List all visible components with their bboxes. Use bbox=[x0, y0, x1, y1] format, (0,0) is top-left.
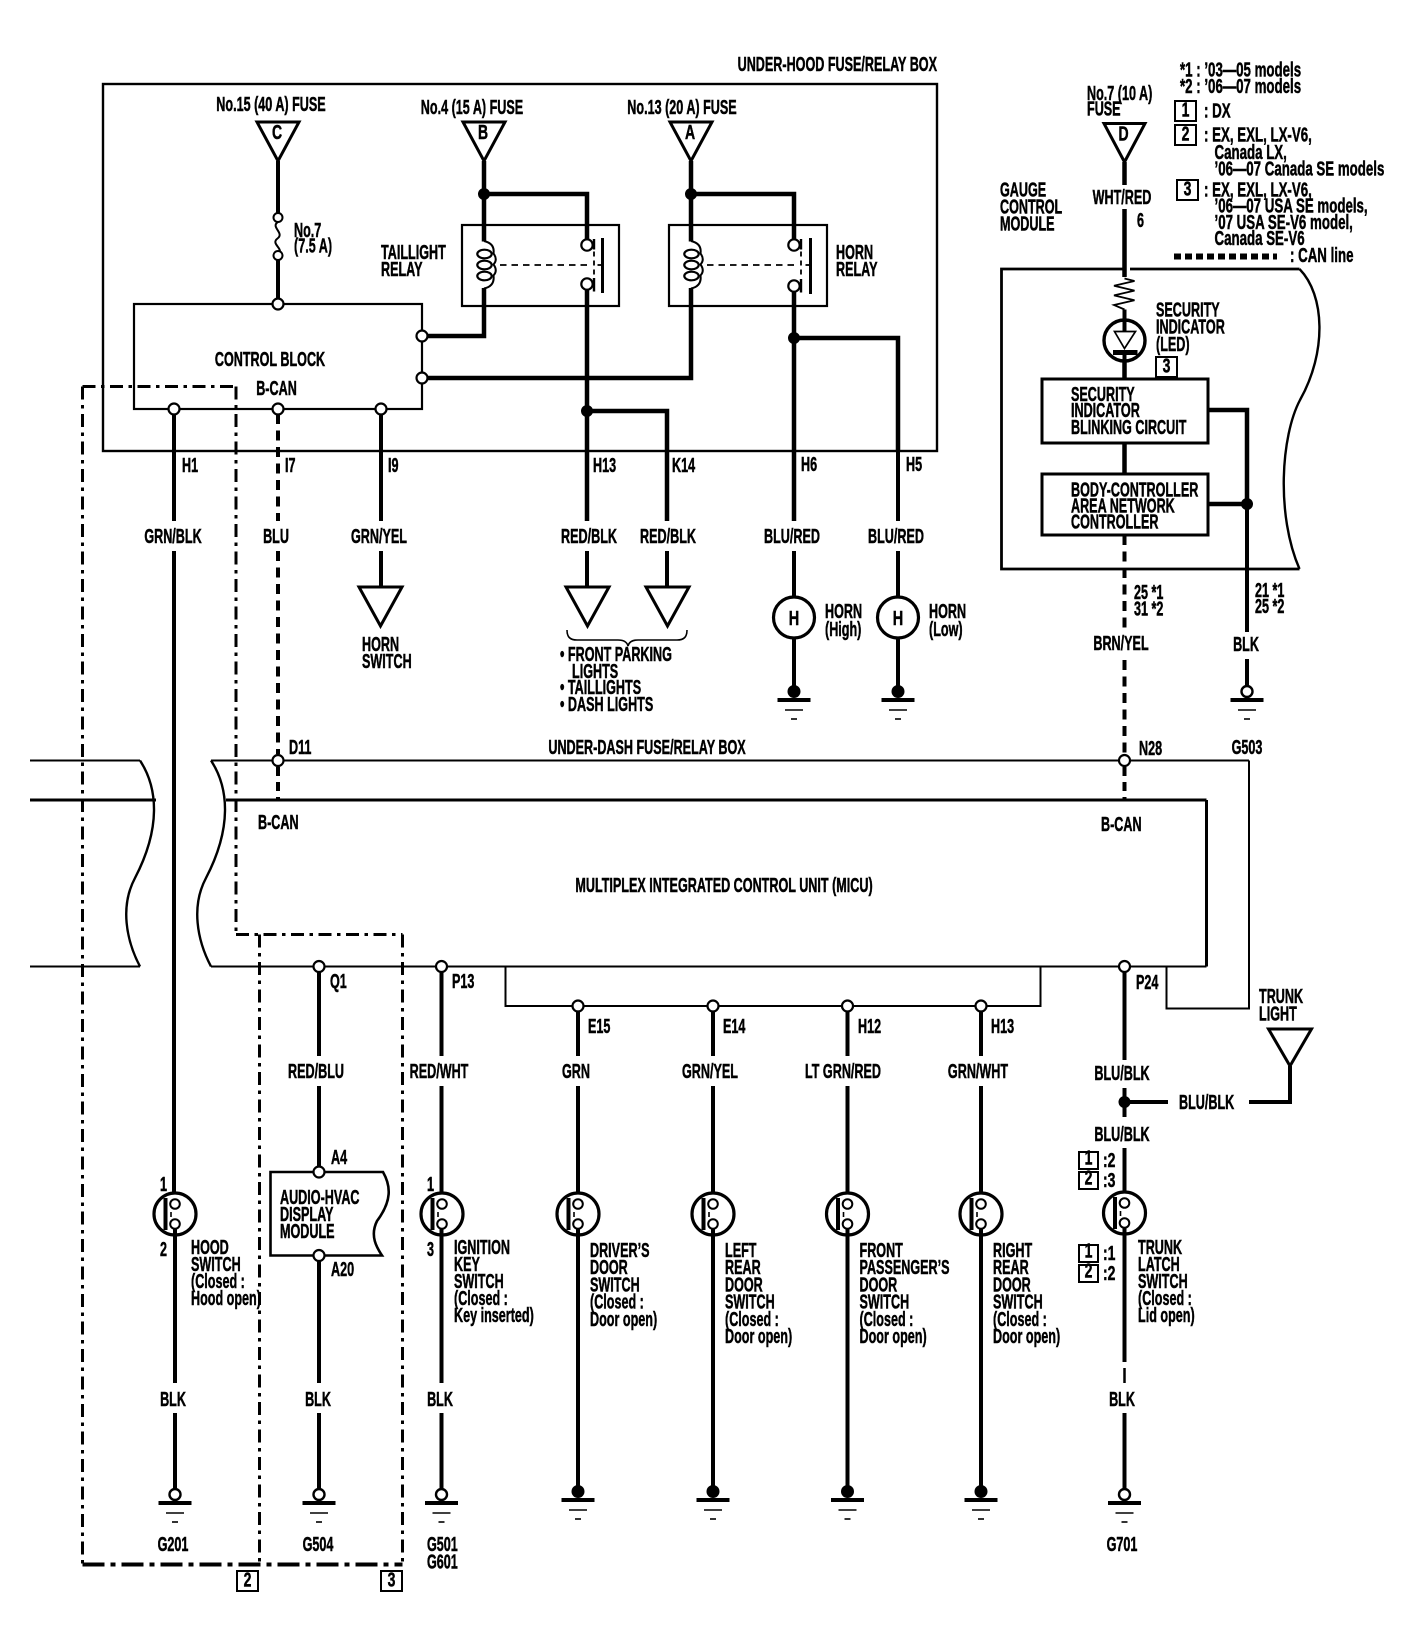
wire trunk to ground bbox=[1123, 1413, 1127, 1489]
svg-text:Lid open): Lid open) bbox=[1138, 1304, 1195, 1327]
wire H1 upper bbox=[172, 414, 176, 521]
ground horn low bbox=[892, 686, 904, 698]
node control block right upper bbox=[417, 331, 428, 342]
wire ignition to ground bbox=[440, 1413, 444, 1489]
wire front passenger door to ground bbox=[846, 1228, 850, 1486]
svg-text:Door open): Door open) bbox=[860, 1325, 927, 1348]
svg-text:H12: H12 bbox=[858, 1015, 881, 1038]
node P24 bbox=[1119, 961, 1130, 972]
svg-text:BLU/BLK: BLU/BLK bbox=[1179, 1091, 1234, 1114]
boxed 1 :2 bbox=[1079, 1152, 1098, 1169]
ground front passenger door bbox=[842, 1486, 854, 1498]
junction fuse A bbox=[686, 189, 697, 200]
wire taillight contact down bbox=[585, 289, 590, 521]
ground right rear door bbox=[975, 1486, 987, 1498]
svg-text:• DASH LIGHTS: • DASH LIGHTS bbox=[560, 693, 653, 716]
boxed 3 LED bbox=[1156, 357, 1177, 377]
wire I7 dashed BLU upper bbox=[276, 414, 280, 521]
horn relay contact bbox=[788, 239, 799, 250]
svg-text:N28: N28 bbox=[1139, 737, 1162, 760]
svg-text:GRN/BLK: GRN/BLK bbox=[144, 525, 201, 548]
svg-text:H5: H5 bbox=[906, 453, 922, 476]
wire to K14 bbox=[587, 411, 667, 521]
wire A junction to coil bbox=[689, 194, 694, 242]
wire LED to blinking circuit bbox=[1122, 360, 1127, 380]
svg-text:’06—07 Canada SE models: ’06—07 Canada SE models bbox=[1215, 158, 1385, 180]
trunk latch switch bbox=[1104, 1192, 1146, 1234]
svg-text:CONTROL BLOCK: CONTROL BLOCK bbox=[215, 348, 325, 371]
wire N28 to MICU dashed bbox=[1123, 767, 1127, 799]
svg-text:RED/BLK: RED/BLK bbox=[561, 525, 617, 548]
dash-dot boundary bottom horizontal bbox=[83, 1563, 403, 1567]
node N28 bbox=[1119, 755, 1130, 766]
wire H5 lower bbox=[896, 551, 900, 597]
svg-text:LIGHT: LIGHT bbox=[1259, 1003, 1297, 1026]
right rear door switch bbox=[960, 1193, 1002, 1235]
wire fuse D down 2 bbox=[1122, 209, 1127, 277]
taillight relay coil bbox=[477, 250, 491, 259]
svg-text:SWITCH: SWITCH bbox=[362, 650, 412, 673]
svg-text:I9: I9 bbox=[388, 454, 399, 477]
wire front passenger door lower bbox=[846, 1086, 850, 1200]
wire taillight coil to control block bbox=[428, 288, 484, 336]
wire BRN/YEL dashed upper bbox=[1123, 535, 1127, 632]
svg-text:Door open): Door open) bbox=[725, 1325, 792, 1348]
wire P13 lower bbox=[440, 1086, 444, 1200]
svg-text:(LED): (LED) bbox=[1156, 333, 1190, 356]
MICU connector bracket bbox=[506, 967, 1041, 1007]
svg-text:BLK: BLK bbox=[305, 1388, 331, 1411]
wire front passenger door upper bbox=[846, 1012, 850, 1056]
svg-text:3: 3 bbox=[388, 1568, 396, 1591]
svg-text:2: 2 bbox=[244, 1568, 252, 1591]
svg-text:I7: I7 bbox=[285, 454, 296, 477]
under-hood fuse/relay box bbox=[103, 84, 937, 451]
dash-dot boundary mid horizontal bbox=[236, 933, 403, 936]
horn switch triangle bbox=[359, 587, 402, 626]
taillight relay bbox=[462, 225, 619, 306]
svg-text:No.4 (15 A) FUSE: No.4 (15 A) FUSE bbox=[421, 96, 523, 119]
svg-text:Key inserted): Key inserted) bbox=[454, 1304, 534, 1327]
wire P13 upper bbox=[440, 972, 444, 1056]
wire blinking circuit to CAN bus bbox=[1208, 410, 1247, 504]
svg-text:(7.5 A): (7.5 A) bbox=[294, 235, 332, 258]
node E15 bbox=[573, 1001, 584, 1012]
svg-text:G503: G503 bbox=[1232, 736, 1263, 759]
svg-text:GRN: GRN bbox=[562, 1060, 590, 1083]
wire BRN/YEL dashed lower bbox=[1123, 660, 1127, 754]
ground G504 bbox=[314, 1489, 325, 1500]
legend box 1 bbox=[1175, 101, 1196, 121]
trunk light triangle bbox=[1269, 1029, 1312, 1066]
svg-text:Hood open): Hood open) bbox=[191, 1287, 261, 1310]
svg-text:RELAY: RELAY bbox=[836, 258, 878, 281]
svg-text:2: 2 bbox=[160, 1238, 167, 1261]
svg-text:D11: D11 bbox=[289, 736, 311, 759]
svg-text:UNDER-DASH FUSE/RELAY BOX: UNDER-DASH FUSE/RELAY BOX bbox=[548, 736, 745, 759]
wire BLK down bbox=[1245, 504, 1249, 632]
security indicator blinking circuit box bbox=[1042, 379, 1208, 443]
wire D11 to MICU dashed bbox=[276, 767, 280, 799]
wire trunk light 2 bbox=[1249, 1066, 1290, 1102]
svg-text:RED/BLU: RED/BLU bbox=[288, 1060, 344, 1083]
svg-text:: DX: : DX bbox=[1204, 100, 1231, 122]
svg-text:H1: H1 bbox=[182, 454, 198, 477]
svg-text:BLK: BLK bbox=[160, 1388, 186, 1411]
horn high bbox=[774, 597, 815, 638]
node control block top bbox=[273, 299, 284, 310]
dash-dot boundary region3 left vertical bbox=[258, 935, 261, 1565]
svg-text:(Low): (Low) bbox=[929, 618, 963, 641]
node E14 bbox=[708, 1001, 719, 1012]
dash-dot boundary top horizontal bbox=[83, 385, 237, 388]
svg-text:BLU/BLK: BLU/BLK bbox=[1094, 1062, 1149, 1085]
wire A junction to contact bbox=[691, 194, 794, 241]
wire hood down bbox=[173, 1228, 177, 1383]
svg-text:MODULE: MODULE bbox=[280, 1220, 335, 1243]
svg-text:G701: G701 bbox=[1107, 1533, 1138, 1556]
junction CAN bbox=[1242, 499, 1253, 510]
horn relay bbox=[669, 225, 827, 306]
node A4 bbox=[314, 1167, 325, 1178]
svg-text:A4: A4 bbox=[331, 1146, 348, 1169]
gauge control module box bbox=[1002, 269, 1300, 569]
torn break curve right bbox=[197, 761, 225, 967]
dash-dot boundary left vertical bbox=[81, 387, 84, 1565]
svg-text:6: 6 bbox=[1137, 209, 1144, 232]
node I9 bbox=[376, 404, 387, 415]
torn break curve left bbox=[126, 761, 154, 967]
svg-text:1: 1 bbox=[160, 1173, 167, 1196]
horn relay coil bbox=[684, 250, 698, 259]
wire left rear door lower bbox=[711, 1086, 715, 1200]
svg-text:BLU/BLK: BLU/BLK bbox=[1094, 1123, 1149, 1146]
svg-text:WHT/RED: WHT/RED bbox=[1093, 186, 1152, 209]
wire H6 lower bbox=[792, 551, 796, 597]
svg-text:(High): (High) bbox=[825, 618, 861, 641]
svg-text:B-CAN: B-CAN bbox=[1101, 813, 1142, 836]
svg-text:B-CAN: B-CAN bbox=[256, 377, 297, 400]
junction H13/K14 bbox=[582, 406, 593, 417]
wire horn high to ground bbox=[792, 638, 796, 689]
svg-text:G201: G201 bbox=[158, 1533, 189, 1556]
legend CAN line sample bbox=[1174, 254, 1277, 260]
wire H1 lower bbox=[172, 551, 176, 1200]
svg-text:GRN/YEL: GRN/YEL bbox=[682, 1060, 738, 1083]
wire P24 down bbox=[1123, 972, 1127, 1060]
wire horn contact down H6 bbox=[792, 291, 797, 521]
left rear door switch bbox=[692, 1193, 734, 1235]
ground G201 bbox=[170, 1489, 181, 1500]
wire to trunk light bbox=[1125, 1100, 1169, 1104]
svg-text:P13: P13 bbox=[452, 970, 474, 993]
node control block right lower bbox=[417, 373, 428, 384]
wire right rear door to ground bbox=[979, 1228, 983, 1486]
node A20 bbox=[314, 1250, 325, 1261]
ground driver's door bbox=[572, 1486, 584, 1498]
wire H13 lower bbox=[585, 551, 589, 586]
svg-text:H: H bbox=[789, 607, 799, 630]
control block bbox=[134, 304, 422, 409]
svg-text:2: 2 bbox=[1085, 1166, 1093, 1189]
svg-text:MODULE: MODULE bbox=[1000, 213, 1055, 236]
MICU box bottom bbox=[30, 966, 140, 968]
wire Q1 lower bbox=[317, 1086, 321, 1166]
wire to H5 bbox=[794, 338, 898, 451]
wire Q1 upper bbox=[317, 972, 321, 1056]
wire B junction to coil bbox=[482, 194, 487, 242]
LED security indicator bbox=[1104, 320, 1145, 361]
boxed 2 bottom bbox=[237, 1571, 258, 1591]
wire H5 upper bbox=[896, 449, 900, 521]
svg-text:FUSE: FUSE bbox=[1087, 98, 1121, 121]
horn relay contact dashed link bbox=[707, 264, 797, 266]
under-dash fuse/relay box top line bbox=[30, 760, 140, 762]
svg-text:BLU/RED: BLU/RED bbox=[764, 525, 820, 548]
legend box 3 bbox=[1177, 180, 1198, 200]
wire horn low to ground bbox=[896, 638, 900, 689]
svg-text::3: :3 bbox=[1103, 1168, 1115, 1191]
triangle taillights bbox=[646, 587, 689, 626]
svg-text:P24: P24 bbox=[1136, 971, 1159, 994]
node I7 bbox=[273, 404, 284, 415]
wire horn coil to control block bbox=[428, 288, 691, 378]
svg-text:CONTROLLER: CONTROLLER bbox=[1071, 511, 1158, 534]
boxed 2 :3 bbox=[1079, 1172, 1098, 1189]
node H13 micu bbox=[976, 1001, 987, 1012]
wire resistor to LED bbox=[1123, 310, 1127, 332]
wire trunk down bbox=[1123, 1227, 1127, 1362]
svg-text:GRN/WHT: GRN/WHT bbox=[948, 1060, 1009, 1083]
wire hood to ground bbox=[173, 1413, 177, 1489]
svg-text::2: :2 bbox=[1103, 1261, 1115, 1284]
svg-text:E15: E15 bbox=[588, 1015, 610, 1038]
svg-text:G504: G504 bbox=[303, 1533, 334, 1556]
svg-text:BLU: BLU bbox=[263, 525, 289, 548]
dash-dot boundary mid vertical bbox=[235, 387, 238, 935]
wire left rear door upper bbox=[711, 1012, 715, 1056]
boxed 3 bottom bbox=[381, 1571, 402, 1591]
svg-text:A: A bbox=[685, 120, 695, 143]
boxed 1 :1 bbox=[1079, 1245, 1098, 1262]
wire driver's door to ground bbox=[576, 1228, 580, 1486]
wire left rear door to ground bbox=[711, 1228, 715, 1486]
svg-text:H: H bbox=[893, 607, 903, 630]
svg-text:1: 1 bbox=[1182, 98, 1190, 121]
svg-text:2: 2 bbox=[1182, 122, 1190, 145]
fuse No.7 (7.5 A) bbox=[274, 213, 283, 222]
body-controller area network controller box bbox=[1042, 474, 1208, 535]
wire fuse D down bbox=[1122, 162, 1127, 185]
wire No.7 to control block bbox=[276, 260, 280, 303]
driver's door switch bbox=[557, 1193, 599, 1235]
ground left rear door bbox=[707, 1486, 719, 1498]
svg-text:Door open): Door open) bbox=[993, 1325, 1060, 1348]
resistor bbox=[1114, 279, 1135, 310]
svg-text:LT GRN/RED: LT GRN/RED bbox=[805, 1060, 881, 1083]
svg-text:GRN/YEL: GRN/YEL bbox=[351, 525, 407, 548]
svg-text:MULTIPLEX INTEGRATED CONTROL U: MULTIPLEX INTEGRATED CONTROL UNIT (MICU) bbox=[575, 874, 872, 897]
hood switch bbox=[154, 1193, 196, 1235]
wire K14 lower bbox=[665, 551, 669, 586]
wire P24 down 2 bbox=[1123, 1088, 1127, 1117]
brace under triangles bbox=[567, 630, 687, 646]
wire fuse A down bbox=[689, 161, 694, 196]
svg-text:Q1: Q1 bbox=[330, 970, 347, 993]
svg-text:K14: K14 bbox=[672, 454, 696, 477]
triangle front parking lights bbox=[566, 587, 609, 626]
taillight relay contact bbox=[581, 239, 592, 250]
dash-dot boundary region3 right vertical bbox=[401, 935, 404, 1565]
svg-text:BLK: BLK bbox=[1109, 1388, 1135, 1411]
svg-text:H6: H6 bbox=[801, 453, 817, 476]
ground horn high bbox=[788, 686, 800, 698]
wire audio to ground bbox=[317, 1413, 321, 1489]
wire A20 down bbox=[317, 1261, 321, 1383]
svg-text:B-CAN: B-CAN bbox=[258, 811, 299, 834]
junction trunk light bbox=[1119, 1097, 1130, 1108]
wire body controller to junction bbox=[1208, 502, 1249, 507]
svg-text:RELAY: RELAY bbox=[381, 258, 423, 281]
wire I7 dashed BLU lower bbox=[276, 551, 280, 754]
junction fuse B bbox=[479, 189, 490, 200]
svg-text:1: 1 bbox=[427, 1173, 434, 1196]
svg-text:BLK: BLK bbox=[1233, 633, 1259, 656]
wire I9 upper bbox=[379, 414, 383, 521]
svg-text:31 *2: 31 *2 bbox=[1134, 598, 1163, 621]
svg-text:BLU/RED: BLU/RED bbox=[868, 525, 924, 548]
wire B junction to contact bbox=[484, 194, 587, 241]
svg-text:2: 2 bbox=[1085, 1259, 1093, 1282]
junction H6/H5 bbox=[789, 333, 800, 344]
ignition key switch bbox=[421, 1193, 463, 1235]
MICU box top bbox=[30, 799, 156, 802]
boxed 2 :2 bbox=[1079, 1265, 1098, 1282]
node P13 bbox=[436, 961, 447, 972]
svg-text:: CAN line: : CAN line bbox=[1290, 244, 1353, 266]
wire right rear door upper bbox=[979, 1012, 983, 1056]
svg-text:A20: A20 bbox=[331, 1258, 354, 1281]
node Q1 bbox=[314, 961, 325, 972]
svg-text:G601: G601 bbox=[427, 1551, 458, 1574]
svg-text:H13: H13 bbox=[593, 454, 616, 477]
svg-text:BRN/YEL: BRN/YEL bbox=[1093, 632, 1148, 655]
node H1 bbox=[169, 404, 180, 415]
svg-text:RED/BLK: RED/BLK bbox=[640, 525, 696, 548]
wire I9 lower bbox=[379, 551, 383, 586]
ground G501/G601 bbox=[436, 1489, 447, 1500]
wire right rear door lower bbox=[979, 1086, 983, 1200]
svg-text:UNDER-HOOD FUSE/RELAY BOX: UNDER-HOOD FUSE/RELAY BOX bbox=[738, 53, 937, 76]
svg-text:Door open): Door open) bbox=[590, 1308, 657, 1331]
wire ignition down bbox=[440, 1228, 444, 1383]
wire trunk latch upper bbox=[1123, 1148, 1127, 1199]
svg-text:B: B bbox=[478, 120, 488, 143]
svg-text:No.13 (20 A) FUSE: No.13 (20 A) FUSE bbox=[627, 96, 736, 119]
wire driver's door upper bbox=[576, 1012, 580, 1056]
horn low bbox=[878, 597, 919, 638]
audio-hvac display module box bbox=[271, 1172, 389, 1256]
legend box 2 bbox=[1175, 125, 1196, 145]
svg-text:RED/WHT: RED/WHT bbox=[410, 1060, 469, 1083]
wire fuse B down bbox=[482, 161, 487, 196]
svg-text:3: 3 bbox=[1184, 177, 1192, 200]
svg-text:3: 3 bbox=[427, 1238, 434, 1261]
svg-text:25 *2: 25 *2 bbox=[1255, 595, 1284, 618]
svg-text:BLINKING CIRCUIT: BLINKING CIRCUIT bbox=[1071, 416, 1187, 439]
wire driver's door lower bbox=[576, 1086, 580, 1200]
svg-text:BLK: BLK bbox=[427, 1388, 453, 1411]
svg-text:No.15 (40 A) FUSE: No.15 (40 A) FUSE bbox=[216, 93, 325, 116]
taillight relay contact dashed link bbox=[500, 264, 590, 266]
svg-text:D: D bbox=[1118, 122, 1128, 145]
ground G503 bbox=[1242, 686, 1253, 697]
MICU box right edge bbox=[1205, 800, 1208, 967]
wire fuse C to No.7 bbox=[276, 161, 280, 213]
ground G701 bbox=[1119, 1489, 1130, 1500]
node H12 bbox=[842, 1001, 853, 1012]
svg-text:C: C bbox=[272, 120, 282, 143]
wire blinking to body controller bbox=[1122, 443, 1127, 474]
svg-text:*2 : ’06—07 models: *2 : ’06—07 models bbox=[1180, 75, 1301, 97]
node D11 bbox=[273, 755, 284, 766]
under-dash box right edge bbox=[1167, 761, 1250, 1009]
front passenger door switch bbox=[827, 1193, 869, 1235]
svg-text:H13: H13 bbox=[991, 1015, 1014, 1038]
svg-text:E14: E14 bbox=[723, 1015, 746, 1038]
svg-text:3: 3 bbox=[1163, 354, 1171, 377]
